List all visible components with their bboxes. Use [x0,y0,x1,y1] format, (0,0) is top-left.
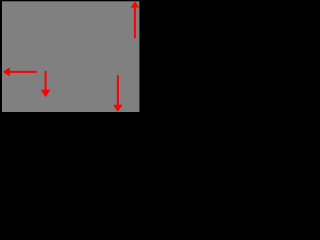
arrow left (middle-left) [3,67,37,76]
arrow down (bottom-right) [113,75,123,112]
black outer border [0,0,141,115]
gray canvas [2,1,139,112]
arrow down (middle) [41,71,51,98]
arrow up (top-right) [131,1,139,38]
